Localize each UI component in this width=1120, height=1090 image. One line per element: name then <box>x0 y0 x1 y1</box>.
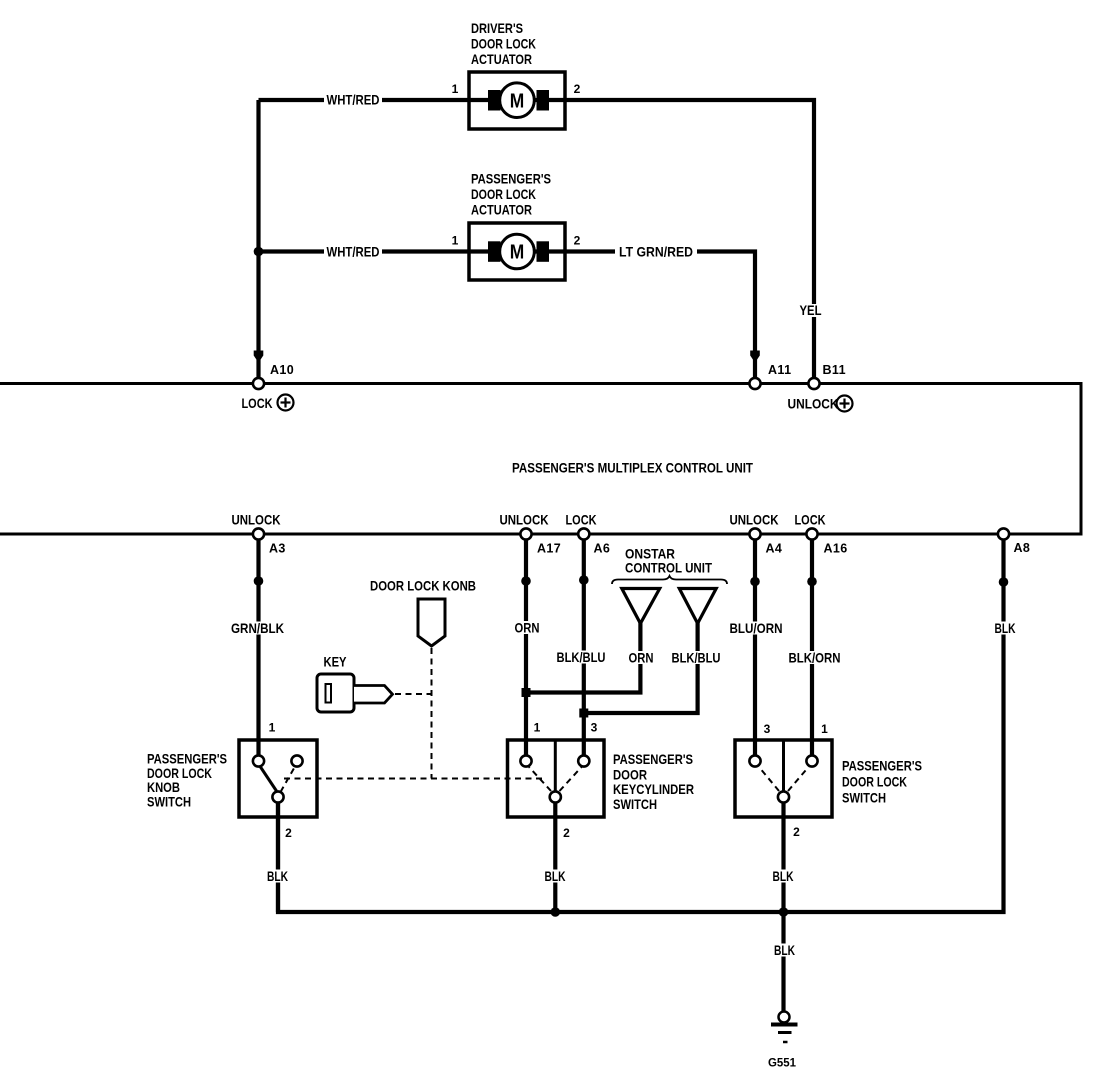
svg-text:BLK: BLK <box>267 868 288 884</box>
svg-text:CONTROL UNIT: CONTROL UNIT <box>625 560 712 576</box>
svg-text:1: 1 <box>452 233 459 247</box>
svg-text:A17: A17 <box>537 542 561 556</box>
svg-text:A3: A3 <box>269 542 286 556</box>
svg-text:A11: A11 <box>768 363 791 377</box>
svg-text:ACTUATOR: ACTUATOR <box>471 202 532 218</box>
svg-text:UNLOCK: UNLOCK <box>232 512 281 528</box>
svg-text:A16: A16 <box>824 542 848 556</box>
svg-text:BLK: BLK <box>774 942 795 958</box>
svg-text:LOCK: LOCK <box>566 512 597 528</box>
svg-text:YEL: YEL <box>800 302 822 318</box>
svg-text:LOCK: LOCK <box>795 512 826 528</box>
svg-text:GRN/BLK: GRN/BLK <box>231 620 284 636</box>
svg-text:ACTUATOR: ACTUATOR <box>471 51 532 67</box>
svg-text:ORN: ORN <box>629 650 654 666</box>
svg-text:PASSENGER'S MULTIPLEX CONTROL: PASSENGER'S MULTIPLEX CONTROL UNIT <box>512 461 754 476</box>
svg-text:UNLOCK: UNLOCK <box>500 512 549 528</box>
svg-text:BLK: BLK <box>545 868 566 884</box>
svg-text:2: 2 <box>574 82 581 96</box>
svg-text:M: M <box>510 242 525 264</box>
svg-text:DOOR LOCK KONB: DOOR LOCK KONB <box>370 578 476 594</box>
svg-text:BLK/BLU: BLK/BLU <box>672 650 721 666</box>
svg-text:KEYCYLINDER: KEYCYLINDER <box>613 781 694 797</box>
svg-text:2: 2 <box>793 825 800 839</box>
svg-text:1: 1 <box>821 722 828 736</box>
svg-text:A10: A10 <box>270 363 294 377</box>
svg-text:LT GRN/RED: LT GRN/RED <box>619 244 693 260</box>
svg-text:B11: B11 <box>823 363 846 377</box>
svg-text:WHT/RED: WHT/RED <box>327 244 380 260</box>
svg-text:BLU/ORN: BLU/ORN <box>730 620 783 636</box>
svg-text:1: 1 <box>534 720 541 734</box>
svg-text:3: 3 <box>591 720 598 734</box>
svg-text:DOOR LOCK: DOOR LOCK <box>471 186 536 202</box>
svg-text:1: 1 <box>269 720 276 734</box>
svg-text:UNLOCK: UNLOCK <box>730 512 779 528</box>
svg-text:BLK: BLK <box>773 868 794 884</box>
svg-text:2: 2 <box>563 826 570 840</box>
svg-text:PASSENGER'S: PASSENGER'S <box>613 751 693 767</box>
svg-text:A8: A8 <box>1014 541 1031 555</box>
svg-text:PASSENGER'S: PASSENGER'S <box>842 758 922 774</box>
svg-text:1: 1 <box>452 82 459 96</box>
svg-text:KEY: KEY <box>324 654 348 670</box>
svg-text:M: M <box>510 90 525 112</box>
svg-text:ORN: ORN <box>515 620 540 636</box>
svg-text:DOOR LOCK: DOOR LOCK <box>471 36 536 52</box>
svg-text:G551: G551 <box>768 1056 796 1070</box>
svg-text:PASSENGER'S: PASSENGER'S <box>471 170 551 186</box>
svg-text:DRIVER'S: DRIVER'S <box>471 20 523 36</box>
svg-text:A4: A4 <box>766 542 783 556</box>
svg-text:LOCK: LOCK <box>242 395 273 411</box>
svg-text:3: 3 <box>764 722 771 736</box>
svg-text:DOOR LOCK: DOOR LOCK <box>842 774 907 790</box>
svg-text:A6: A6 <box>594 542 611 556</box>
svg-text:2: 2 <box>285 826 292 840</box>
svg-text:UNLOCK: UNLOCK <box>788 396 839 412</box>
svg-text:SWITCH: SWITCH <box>613 796 657 812</box>
svg-text:SWITCH: SWITCH <box>147 793 191 809</box>
svg-text:2: 2 <box>574 233 581 247</box>
svg-text:BLK: BLK <box>995 620 1016 636</box>
svg-text:WHT/RED: WHT/RED <box>327 92 380 108</box>
svg-text:SWITCH: SWITCH <box>842 789 886 805</box>
svg-text:BLK/ORN: BLK/ORN <box>789 650 841 666</box>
svg-text:BLK/BLU: BLK/BLU <box>557 649 606 665</box>
